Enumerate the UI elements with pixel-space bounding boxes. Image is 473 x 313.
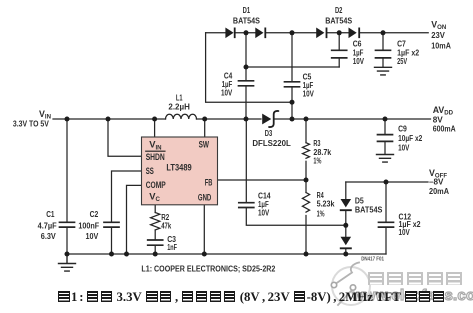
wire C9 top bbox=[384, 119, 386, 134]
wire R2 to C3 bbox=[154, 230, 156, 239]
wire C14 column bbox=[245, 119, 247, 202]
svg-text:10mA: 10mA bbox=[431, 41, 451, 51]
diode D3 bbox=[262, 114, 271, 125]
wire R3 to FB node bbox=[305, 161, 307, 180]
svg-text:BAT54S: BAT54S bbox=[355, 204, 383, 214]
capacitor C3 bbox=[148, 240, 163, 245]
wire C3 bottom bbox=[154, 246, 156, 254]
svg-text:10V: 10V bbox=[398, 143, 409, 153]
wire FB pin bbox=[218, 179, 307, 181]
wire VIN rail bbox=[53, 118, 166, 120]
junction dot D5 mid bbox=[343, 223, 348, 228]
svg-text:D3: D3 bbox=[265, 128, 273, 138]
watermark big characters bbox=[366, 272, 464, 290]
wire VC pin bbox=[154, 205, 156, 213]
wire VOFF line bbox=[346, 181, 428, 183]
wire SS pin to C2 bbox=[112, 171, 142, 222]
wire D5 bottom bbox=[345, 249, 347, 254]
diode D1a bbox=[225, 28, 235, 39]
svg-text:10µF x2: 10µF x2 bbox=[398, 133, 422, 143]
caption bbox=[57, 290, 446, 305]
svg-text:C9: C9 bbox=[398, 123, 407, 133]
wire C6 top bbox=[338, 33, 340, 50]
capacitor C4 bbox=[239, 81, 254, 86]
diode D3 schottky curve bbox=[269, 111, 278, 127]
capacitor C9 bbox=[378, 135, 393, 142]
wire R4 to ground bbox=[305, 216, 307, 255]
svg-text:10V: 10V bbox=[353, 56, 364, 66]
capacitor C14 bbox=[239, 203, 254, 208]
svg-text:6.3V: 6.3V bbox=[41, 231, 56, 241]
wire C12 bottom bbox=[385, 228, 387, 254]
wire C14 to D5 mid bbox=[246, 208, 345, 225]
svg-text:100nF: 100nF bbox=[78, 220, 99, 230]
inductor L1 bbox=[165, 114, 196, 119]
wire D1 mid to C6 bbox=[246, 66, 339, 68]
diode D5b bbox=[340, 237, 352, 249]
wire C5 bottom to AVDD bbox=[291, 88, 293, 119]
svg-text:10V: 10V bbox=[258, 208, 269, 218]
resistor R4 bbox=[302, 193, 309, 213]
svg-text:4.7µF: 4.7µF bbox=[38, 220, 57, 230]
wire C12 top bbox=[385, 182, 387, 222]
svg-text:FB: FB bbox=[205, 177, 213, 188]
svg-text:SS: SS bbox=[146, 165, 154, 176]
ground symbol C7 bbox=[375, 67, 392, 75]
ground symbol C9 bbox=[377, 155, 394, 163]
diode D1b bbox=[255, 28, 266, 39]
wire SHDN pin bbox=[108, 119, 142, 156]
wire SW pin bbox=[204, 119, 206, 137]
ground symbol main bbox=[59, 254, 76, 271]
wire ground rail bbox=[67, 253, 386, 255]
svg-text:C1: C1 bbox=[46, 209, 54, 219]
wire COMP pin bbox=[127, 185, 142, 254]
junction dot chain-AVDD bbox=[290, 100, 295, 105]
capacitor C7 bbox=[376, 50, 391, 58]
wire C7 top bbox=[382, 33, 384, 50]
svg-text:600mA: 600mA bbox=[433, 123, 456, 133]
svg-text:2.2µH: 2.2µH bbox=[168, 101, 190, 111]
svg-text:GND: GND bbox=[198, 192, 212, 203]
diode D2b bbox=[349, 28, 361, 39]
svg-text:20mA: 20mA bbox=[429, 186, 449, 196]
watermark logo bbox=[331, 263, 370, 306]
svg-text:3.3V TO 5V: 3.3V TO 5V bbox=[13, 118, 49, 128]
capacitor C2 bbox=[104, 222, 119, 227]
diode D2a bbox=[316, 28, 327, 39]
junction dot FB node bbox=[304, 178, 309, 183]
svg-text:D1: D1 bbox=[243, 5, 251, 15]
resistor R2 bbox=[151, 213, 160, 231]
wire C4 top bbox=[245, 33, 247, 80]
junction dots ground rail bbox=[65, 252, 70, 257]
junction dot D1 mid bbox=[244, 65, 249, 70]
IC U1 LT3489 body bbox=[142, 137, 218, 205]
svg-text:23V: 23V bbox=[431, 30, 445, 40]
svg-text:DN417 F01: DN417 F01 bbox=[361, 257, 384, 263]
junction dots diode row bbox=[244, 30, 249, 35]
svg-text:BAT54S: BAT54S bbox=[325, 15, 352, 25]
svg-text:5.23k: 5.23k bbox=[317, 199, 335, 209]
svg-text:10V: 10V bbox=[86, 231, 99, 241]
watermark URL www.elecfans.com bbox=[352, 287, 473, 304]
svg-text:L1: COOPER ELECTRONICS; SD25-: L1: COOPER ELECTRONICS; SD25-2R2 bbox=[141, 263, 275, 273]
junction dot VOFF C12 bbox=[384, 180, 389, 185]
svg-text:1%: 1% bbox=[317, 208, 325, 218]
wire GND pin bbox=[203, 205, 205, 254]
capacitor C5 bbox=[285, 82, 300, 87]
capacitor C1 bbox=[60, 222, 75, 227]
wire diode row bbox=[206, 32, 429, 34]
wire VIN pin bbox=[154, 119, 156, 137]
svg-text:1%: 1% bbox=[313, 155, 321, 165]
svg-text:C2: C2 bbox=[90, 209, 99, 219]
svg-text:D2: D2 bbox=[335, 5, 343, 15]
capacitor C12 bbox=[379, 222, 394, 227]
svg-text:COMP: COMP bbox=[146, 179, 166, 190]
wire AVDD to R3 bbox=[305, 119, 307, 143]
wire AVDD rail bbox=[274, 118, 431, 120]
wire C5 top bbox=[291, 33, 293, 81]
wire chain start to AVDD node bbox=[206, 33, 292, 102]
wire FB node to R4 bbox=[305, 180, 307, 193]
wire D5 mid bbox=[345, 211, 347, 237]
svg-text:47k: 47k bbox=[161, 221, 171, 231]
svg-text:DFLS220L: DFLS220L bbox=[252, 138, 291, 148]
wire C1 bottom bbox=[66, 228, 68, 254]
svg-text:10V: 10V bbox=[399, 227, 410, 237]
wire C7 bottom bbox=[382, 59, 384, 67]
wire C2 bottom bbox=[111, 228, 113, 254]
resistor R3 bbox=[303, 143, 310, 159]
svg-text:LT3489: LT3489 bbox=[166, 162, 191, 173]
svg-text:1nF: 1nF bbox=[167, 242, 177, 252]
wire C1 top bbox=[66, 119, 68, 222]
wire VOFF to D5a bbox=[345, 182, 347, 199]
wire C9 bottom bbox=[384, 142, 386, 154]
wire SW rail bbox=[197, 118, 262, 120]
capacitor C6 bbox=[332, 50, 347, 58]
svg-text:25V: 25V bbox=[397, 56, 407, 66]
diode D5a bbox=[340, 199, 352, 211]
wire C6 bottom bbox=[338, 59, 340, 67]
svg-text:BAT54S: BAT54S bbox=[233, 15, 260, 25]
svg-text:SW: SW bbox=[199, 139, 209, 150]
wire C4 bottom bbox=[245, 87, 247, 119]
junction dots VIN rail bbox=[65, 117, 70, 122]
svg-text:10V: 10V bbox=[303, 89, 314, 99]
svg-text:10V: 10V bbox=[221, 87, 232, 97]
svg-text:SHDN: SHDN bbox=[146, 151, 165, 162]
